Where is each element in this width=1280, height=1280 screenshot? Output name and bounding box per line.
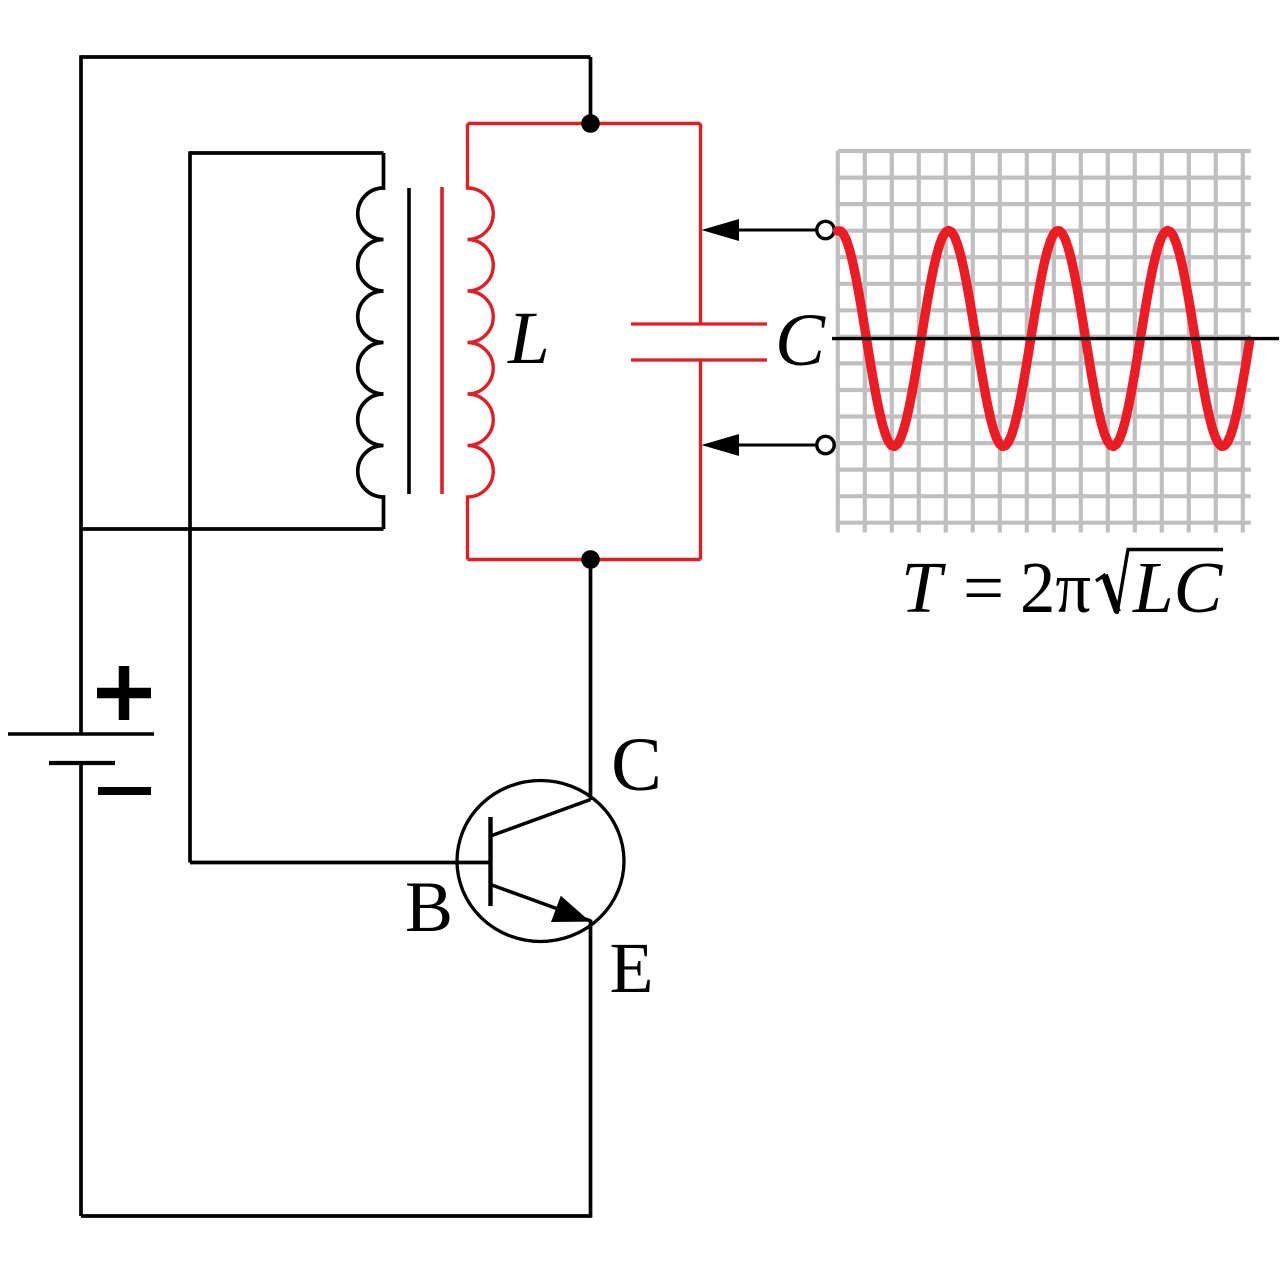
transistor Q1 emitter arrowhead [551,896,590,922]
svg-text:C: C [611,723,662,807]
formula radical vinculum [1127,548,1224,551]
svg-text:E: E [610,928,654,1008]
wire: emitter lead vertical [589,920,593,1218]
scope horizontal axis line [832,337,1279,340]
svg-text:B: B [405,867,453,947]
node: tank circuit bottom junction dot [581,550,600,569]
svg-text:C: C [775,299,826,382]
svg-text:=: = [963,547,1004,628]
transformer primary coil (black) [358,153,384,529]
scope probe arrow bottom head [702,434,740,456]
wire: left rail down to battery positive plate [79,55,83,734]
battery negative plate (short) [49,761,115,765]
transistor Q1 body circle [457,781,624,942]
wire: stub from top rail down to tank top node [589,57,593,124]
oscilloscope screen grid [838,151,1251,533]
transistor Q1 collector stroke [491,800,591,837]
scope probe terminal top [817,221,834,238]
svg-text:T: T [901,547,946,628]
svg-text:2π: 2π [1020,547,1091,628]
wire: red tank right upper segment to capacitor [699,124,702,325]
node: tank circuit top junction dot [581,114,600,133]
wire: top rail from battery positive branch to collector node [81,55,591,59]
capacitor C plates [631,324,767,360]
wire: battery positive rail to primary coil bottom [81,527,384,531]
wire: collector lead from tank bottom node [589,560,593,801]
wire: inner feedback rect top segment [190,151,384,155]
scope probe arrow bottom shaft [737,444,816,447]
wire: bottom return rail [81,1214,591,1218]
svg-text:LC: LC [1132,547,1224,628]
scope probe arrow top head [702,219,740,241]
svg-text:L: L [507,297,550,380]
wire: base lead horizontal [190,861,491,865]
wire: red tank bottom segment [468,558,701,561]
transistor Q1 base bar [488,817,492,906]
wire: red tank right lower segment from capacitor [699,360,702,560]
scope sine trace [838,231,1250,447]
transformer core red bar [440,187,444,494]
scope probe terminal bottom [817,436,834,453]
formula radical sign [1096,550,1128,614]
inductor L : red secondary coil of transformer [468,124,494,560]
transistor Q1 emitter stroke [491,885,592,922]
wire: inner feedback rect left vertical to base [188,151,192,862]
wire: battery negative down-left rail [79,763,83,1216]
battery − label [98,787,151,795]
battery + label [97,666,151,720]
scope probe arrow top shaft [737,229,816,232]
wire: red tank top segment [468,122,701,125]
transformer core black bar [407,188,411,494]
battery positive plate (long) [8,732,154,735]
